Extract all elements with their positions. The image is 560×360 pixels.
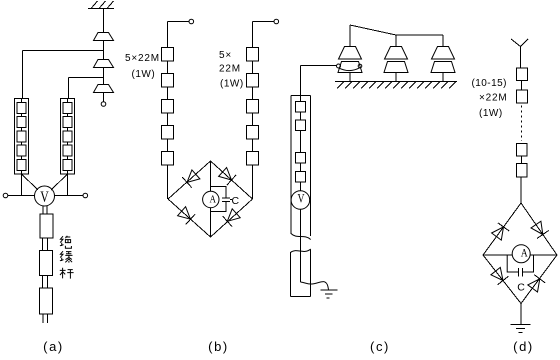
bridge diamond wires (d)	[483, 203, 521, 255]
insulating rod (a)	[40, 214, 53, 238]
resistor string R-right (a)	[61, 99, 75, 175]
voltmeter V (a)	[35, 186, 55, 206]
svg-text:A: A	[210, 193, 217, 205]
wire center vertical (b)	[210, 161, 212, 191]
resistor string R-left (a)	[15, 99, 29, 175]
ground symbol (c)	[321, 289, 338, 291]
rod lower section (c)	[291, 249, 311, 253]
diode D7 bottom-left (d)	[491, 267, 503, 280]
diode D3 top-right (b)	[219, 168, 232, 181]
wire branch lower	[103, 68, 105, 78]
rod resistors (c)	[300, 96, 302, 102]
resistor chain right (b) : 5 squares	[252, 22, 254, 48]
diode D4 bottom-right (b)	[227, 209, 240, 222]
svg-text:(1W): (1W)	[132, 69, 156, 80]
bridge diamond wires (b)	[168, 161, 211, 199]
line hook antenna (d)	[511, 39, 521, 47]
svg-text:5×22M: 5×22M	[125, 53, 160, 64]
svg-text:A: A	[521, 246, 528, 260]
ammeter A (d)	[512, 245, 530, 263]
svg-text:V: V	[40, 189, 49, 206]
label C (b)	[230, 199, 232, 201]
voltmeter V (c)	[291, 191, 310, 210]
svg-text:(c): (c)	[370, 339, 390, 354]
wire branch upper	[23, 50, 104, 52]
insulator disc 2	[103, 51, 105, 60]
terminal circle right	[83, 193, 88, 198]
diode D5 top-left (d)	[492, 227, 504, 240]
svg-text:V: V	[298, 192, 305, 206]
free terminal	[103, 93, 105, 102]
post insulator 1 (c)	[339, 47, 362, 60]
diode D8 bottom-right (d)	[528, 279, 540, 292]
insulator disc 3	[103, 78, 105, 85]
wire to ground (d)	[520, 304, 522, 325]
svg-text:5×: 5×	[219, 50, 232, 61]
diode D2 bottom-left (b)	[178, 207, 191, 220]
flexible ground lead (c)	[300, 282, 328, 290]
post insulator 3 (c)	[432, 47, 455, 60]
tower cross-arm hatching	[88, 8, 114, 10]
label 杆	[60, 268, 66, 279]
svg-text:(a): (a)	[43, 339, 64, 354]
label 绝	[60, 236, 74, 279]
terminal right (b)	[253, 21, 275, 23]
svg-text:C: C	[517, 282, 525, 294]
svg-text:(1W): (1W)	[479, 108, 503, 119]
conductor jumper wires (c)	[349, 25, 351, 47]
busbar with ground hatching (c)	[335, 81, 457, 83]
svg-text:C: C	[232, 195, 240, 207]
wire through rod break (c)	[299, 209, 301, 282]
ground symbol (d)	[511, 324, 531, 326]
resistor chain (d)	[517, 68, 528, 81]
terminal circle left	[3, 193, 8, 198]
post insulator 2 (c)	[385, 47, 408, 60]
svg-text:(10-15): (10-15)	[472, 78, 507, 89]
link below meter	[42, 206, 44, 214]
wire down to rod (c)	[300, 66, 302, 96]
svg-text:22M: 22M	[219, 64, 241, 75]
horizontal wire through A (d)	[483, 254, 512, 256]
ammeter A (b)	[203, 191, 219, 207]
svg-text:(d): (d)	[513, 339, 534, 354]
measuring rod upper section (c)	[291, 95, 311, 97]
capacitor C loop (b)	[211, 187, 227, 198]
label 缘	[60, 251, 64, 261]
wire	[103, 41, 105, 51]
wire	[103, 9, 105, 33]
diode D1 top-left (b)	[187, 170, 200, 183]
dotted continuation (d)	[521, 106, 523, 142]
svg-text:(1W): (1W)	[220, 79, 244, 90]
clamp hook on insulator 1 (c)	[301, 65, 337, 67]
insulator disc 1	[94, 33, 114, 41]
resistor chain left (b) : 5 squares	[167, 22, 169, 48]
diode D6 top-right (d)	[531, 221, 543, 234]
svg-text:(b): (b)	[208, 339, 229, 354]
svg-text:×22M: ×22M	[479, 93, 508, 104]
wires to voltmeter	[21, 174, 23, 196]
terminal left (b)	[168, 21, 190, 23]
capacitor C loop (d)	[507, 255, 518, 272]
